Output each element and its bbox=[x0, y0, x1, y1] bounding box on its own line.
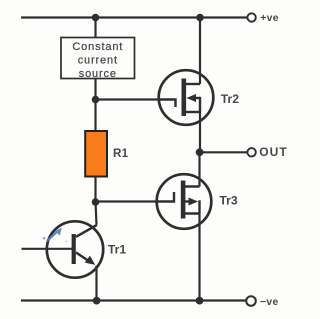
wire CCS top lead bbox=[94, 18, 96, 39]
wire Tr2 drain lead bbox=[199, 18, 201, 85]
svg-text:OUT: OUT bbox=[259, 145, 287, 159]
wire Tr1 base lead bbox=[22, 248, 73, 250]
node junction Tr3 gate tap bbox=[92, 198, 100, 206]
blue pen mark bbox=[43, 228, 68, 243]
transistor Tr2 (n-channel MOSFET) bbox=[159, 70, 240, 125]
svg-text:Constant: Constant bbox=[72, 41, 123, 53]
wire bottom -ve rail bbox=[21, 299, 248, 301]
svg-text:R1: R1 bbox=[113, 147, 129, 160]
node OUT junction bbox=[196, 148, 204, 156]
svg-text:current: current bbox=[78, 55, 118, 67]
wire Tr2 source to OUT bbox=[199, 112, 201, 152]
resistor R1 bbox=[85, 131, 128, 177]
svg-text:Tr2: Tr2 bbox=[221, 92, 240, 106]
terminal OUT bbox=[247, 145, 287, 159]
wire to Tr2 gate bbox=[96, 98, 161, 100]
transistor Tr1 (NPN) bbox=[47, 221, 127, 277]
wire R1 bottom lead bbox=[94, 177, 96, 203]
node junction top-right bbox=[196, 14, 204, 22]
wire Tr3 drain lead bbox=[198, 152, 200, 186]
transistor Tr3 (p-channel MOSFET) bbox=[157, 174, 238, 229]
terminal +ve bbox=[247, 13, 278, 24]
wire CCS bottom lead down to R1 bbox=[94, 79, 96, 132]
wire top +ve rail bbox=[21, 16, 248, 18]
wire Tr1 emitter lead bbox=[95, 266, 97, 301]
node junction bottom-left bbox=[93, 297, 101, 305]
wire OUT bbox=[200, 151, 248, 153]
node junction top-left bbox=[92, 14, 100, 22]
terminal -ve bbox=[246, 296, 278, 308]
wire to Tr3 gate bbox=[96, 200, 159, 202]
svg-text:+ve: +ve bbox=[260, 13, 279, 24]
wire Tr3 source lead bbox=[198, 214, 200, 301]
wire Tr1 collector lead bbox=[96, 202, 97, 225]
node junction bottom-right bbox=[196, 297, 204, 305]
constant current source box bbox=[61, 38, 135, 81]
node junction Tr2 gate tap bbox=[92, 96, 100, 104]
svg-text:−ve: −ve bbox=[260, 297, 279, 308]
svg-text:source: source bbox=[79, 68, 117, 80]
svg-text:Tr1: Tr1 bbox=[108, 243, 127, 257]
svg-text:Tr3: Tr3 bbox=[219, 194, 238, 208]
